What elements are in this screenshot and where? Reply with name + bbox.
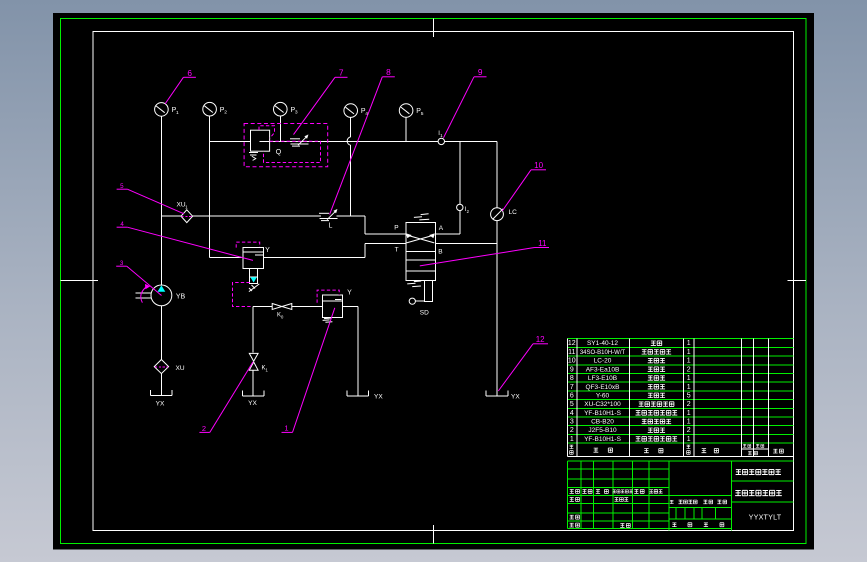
svg-text:7: 7 <box>570 384 574 391</box>
wire: main gauge manifold line right <box>260 140 497 142</box>
svg-text:1: 1 <box>687 349 691 356</box>
svg-text:YF-B10H1-S: YF-B10H1-S <box>584 410 622 417</box>
wire: junction down to K1 valve <box>252 307 254 353</box>
wire: K0 to Y2 valve <box>292 306 322 308</box>
svg-text:SY1-40-12: SY1-40-12 <box>587 340 618 347</box>
svg-text:A: A <box>439 225 444 232</box>
svg-text:1: 1 <box>687 375 691 382</box>
svg-text:YX: YX <box>511 393 520 400</box>
flow-control throttle Q <box>290 138 300 140</box>
svg-text:8: 8 <box>570 375 574 382</box>
wire: valve P port line <box>365 233 406 235</box>
wire: valve B port line <box>436 243 497 245</box>
svg-text:5: 5 <box>687 392 691 399</box>
Y1 dashed enclosure <box>236 242 260 248</box>
svg-text:SD: SD <box>420 310 429 317</box>
svg-text:3: 3 <box>570 419 574 426</box>
wire: throttle L line segment 1 <box>161 215 181 217</box>
wire: throttle L line segment 3 <box>337 215 366 217</box>
svg-text:34SO-B10H-W/T: 34SO-B10H-W/T <box>580 350 626 356</box>
svg-text:12: 12 <box>536 335 545 344</box>
title block grid <box>568 460 794 462</box>
filter XU <box>154 360 168 374</box>
svg-text:AF3-Ea10B: AF3-Ea10B <box>586 366 620 373</box>
tank YX4 <box>485 391 487 397</box>
wire: line hop arc on P4 stem <box>347 137 351 145</box>
svg-text:XU-C32*100: XU-C32*100 <box>584 401 621 408</box>
svg-text:L: L <box>329 222 333 229</box>
BOM table grid <box>568 338 794 340</box>
svg-text:J2F5-B10: J2F5-B10 <box>588 427 617 434</box>
svg-text:XU: XU <box>176 365 185 372</box>
wire: P4 gauge stem lower <box>350 145 352 216</box>
pilot relief valve Y1 (item 4) <box>243 247 263 268</box>
svg-text:QF3-E10xB: QF3-E10xB <box>586 384 620 391</box>
pressure gauge P3 <box>274 102 288 116</box>
wire: K1 valve to tank YX2 <box>252 370 254 396</box>
svg-text:11: 11 <box>568 349 575 356</box>
title block school name <box>736 470 742 475</box>
centering tick left <box>61 279 99 281</box>
svg-text:YX: YX <box>156 400 165 407</box>
svg-text:1: 1 <box>687 384 691 391</box>
wire: pilot drain line to K0 <box>253 306 272 308</box>
svg-text:12: 12 <box>568 340 576 347</box>
svg-text:1: 1 <box>284 424 288 433</box>
title block left grid texts <box>570 490 574 494</box>
svg-text:YB: YB <box>176 293 186 300</box>
Y1 pilot drain dashed line <box>233 283 253 307</box>
BOM header row <box>569 445 573 448</box>
wire: main gauge manifold line left <box>210 140 251 142</box>
svg-text:YX: YX <box>374 393 383 400</box>
wire: T line step down to return line <box>364 244 366 258</box>
svg-text:P: P <box>394 225 398 232</box>
svg-text:LC: LC <box>509 209 518 216</box>
svg-text:2: 2 <box>687 401 691 408</box>
svg-text:9: 9 <box>570 366 574 373</box>
svg-text:1: 1 <box>687 419 691 426</box>
svg-text:1: 1 <box>687 358 691 365</box>
svg-text:YX: YX <box>248 400 257 407</box>
svg-text:5: 5 <box>421 111 424 117</box>
tank YX1 <box>150 390 152 396</box>
wire: right riser to LC meter <box>496 141 498 208</box>
wire: Y2 valve outlet down to tank YX3 <box>357 306 359 396</box>
svg-text:1: 1 <box>687 436 691 443</box>
svg-text:9: 9 <box>478 67 483 77</box>
pump rotation arrow (magenta arc) <box>141 286 147 302</box>
centering tick right <box>787 279 806 281</box>
svg-text:Y: Y <box>265 247 270 254</box>
wire: valve A port line <box>436 233 460 235</box>
tank YX3 <box>346 391 348 397</box>
wire: XU filter to tank YX1 <box>160 374 162 396</box>
wire: P1 gauge stem / pump pressure line <box>160 116 162 285</box>
filter XU1 <box>181 210 193 223</box>
svg-text:1: 1 <box>570 436 574 443</box>
svg-text:Q: Q <box>276 149 282 156</box>
wire: junction riser to I2 node <box>459 141 461 204</box>
relief valve Y2 (item 1) <box>322 295 342 317</box>
Y2 dashed enclosure <box>317 290 339 303</box>
svg-text:2: 2 <box>687 366 691 373</box>
centering tick top <box>432 19 434 37</box>
svg-text:LC-20: LC-20 <box>594 358 612 365</box>
svg-text:1: 1 <box>687 340 691 347</box>
svg-text:LF3-E10B: LF3-E10B <box>588 375 617 382</box>
wire: P2 gauge stem down to return line <box>209 116 211 258</box>
svg-text:2: 2 <box>224 110 227 116</box>
pressure gauge P1 <box>155 103 169 117</box>
solenoid SD <box>424 281 432 302</box>
svg-text:3: 3 <box>295 110 298 116</box>
flow meter LC <box>491 208 504 221</box>
svg-text:B: B <box>438 248 442 255</box>
dashed enclosure item 7 inner top-left <box>259 126 275 139</box>
svg-text:5: 5 <box>570 401 574 408</box>
wire: pump outlet to XU filter <box>160 306 162 360</box>
dashed enclosure item 7 outer <box>244 124 328 167</box>
svg-text:T: T <box>395 247 399 254</box>
wire: return line left of Y1 <box>210 257 243 259</box>
wire: valve T port line <box>365 243 406 245</box>
svg-text:YF-B10H1-S: YF-B10H1-S <box>584 436 622 443</box>
svg-text:6: 6 <box>570 392 574 399</box>
wire: P5 gauge stem <box>405 117 407 141</box>
drawing frame (white) <box>93 32 793 531</box>
svg-text:2: 2 <box>570 427 574 434</box>
title block drawing title <box>735 491 741 496</box>
dashed enclosure item 7 inner bottom-right <box>264 141 321 162</box>
pressure gauge P4 <box>344 104 358 118</box>
title block center texts <box>670 500 674 503</box>
wire: throttle L line segment 2 <box>193 215 321 217</box>
wire: P3 gauge stem <box>279 116 281 142</box>
svg-text:11: 11 <box>538 239 547 248</box>
shut-off valve K0 (item 2) <box>272 304 282 310</box>
wire: P4 gauge stem upper <box>350 117 352 137</box>
node I1 <box>438 138 444 144</box>
svg-text:Y-60: Y-60 <box>596 392 610 399</box>
svg-text:10: 10 <box>534 161 543 170</box>
wire: LC meter down to tank YX4 <box>496 221 498 397</box>
svg-text:1: 1 <box>687 410 691 417</box>
pump YB <box>151 285 172 306</box>
svg-text:4: 4 <box>570 410 574 417</box>
svg-text:CB-B20: CB-B20 <box>591 419 614 426</box>
pressure gauge P2 <box>203 102 217 116</box>
svg-text:8: 8 <box>386 67 391 77</box>
pressure gauge P5 <box>399 104 413 118</box>
wire: return line right of Y1 <box>263 257 365 259</box>
centering tick bottom <box>432 525 434 543</box>
directional valve 34SO (item 11) <box>406 222 436 280</box>
svg-text:7: 7 <box>339 68 344 78</box>
svg-text:YYXTYLT: YYXTYLT <box>749 513 782 522</box>
svg-text:10: 10 <box>568 358 576 365</box>
shut-off valve K1 (item 2) <box>249 353 258 361</box>
node I2 <box>457 204 463 210</box>
tank YX2 <box>241 391 243 397</box>
wire: L line step down to P line <box>364 216 366 234</box>
wire: I2 node down to valve A line <box>459 211 461 235</box>
wire: Y2 valve to riser <box>342 305 358 307</box>
svg-text:2: 2 <box>687 427 691 434</box>
svg-text:2: 2 <box>202 424 206 433</box>
svg-text:6: 6 <box>187 68 192 78</box>
svg-text:1: 1 <box>176 110 179 116</box>
throttle valve L <box>319 212 329 214</box>
flow sensor box (item 7 dashed area) <box>251 130 270 151</box>
svg-text:Y: Y <box>347 290 352 297</box>
